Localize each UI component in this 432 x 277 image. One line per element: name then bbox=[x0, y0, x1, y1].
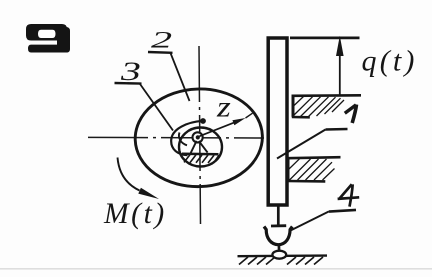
support triangle bbox=[191, 141, 208, 153]
leader 1 bbox=[277, 130, 326, 159]
problem number 9 bbox=[26, 24, 70, 53]
support base line bbox=[182, 153, 219, 156]
rod 1 bbox=[268, 38, 287, 205]
vertical centerline bbox=[199, 46, 201, 224]
inner circle 3 bbox=[179, 128, 222, 167]
z arrow bbox=[200, 122, 237, 136]
roller ball bbox=[272, 251, 286, 259]
cup follower 4 bbox=[264, 227, 292, 245]
upper guide block bbox=[292, 95, 362, 117]
ground line bbox=[238, 254, 328, 257]
support hatching bbox=[184, 155, 219, 163]
ground hatching bbox=[239, 257, 323, 265]
horizontal centerline bbox=[88, 136, 264, 139]
M(t) arc arrow bbox=[118, 158, 140, 191]
label 3 bbox=[120, 57, 141, 86]
svg-text:q(t): q(t) bbox=[362, 45, 418, 78]
spiral spring arc bbox=[171, 121, 202, 155]
leader 2 bbox=[171, 53, 190, 101]
stem crossbar bbox=[271, 224, 286, 227]
svg-text:z: z bbox=[216, 91, 231, 124]
underline 3 bbox=[115, 82, 142, 85]
leader 3 bbox=[140, 84, 173, 131]
disk 2 (large ellipse) bbox=[134, 87, 265, 189]
follower stem bbox=[277, 206, 280, 226]
top reference line bbox=[290, 37, 360, 40]
underline 2 bbox=[148, 51, 173, 54]
label z bbox=[216, 91, 231, 124]
svg-text:3: 3 bbox=[120, 57, 141, 86]
bottom page rule bbox=[0, 268, 432, 270]
lower guide block bbox=[287, 157, 340, 181]
svg-text:M(t): M(t) bbox=[103, 198, 167, 230]
label 4 bbox=[338, 184, 360, 206]
centerline dot inside rod bbox=[271, 137, 274, 140]
q(t) arrow bbox=[339, 50, 341, 95]
spiral inner hook bbox=[179, 133, 187, 146]
label 2 bbox=[151, 28, 172, 53]
label 1 bbox=[345, 105, 356, 113]
underline 1 bbox=[326, 128, 348, 131]
pin circle bbox=[193, 132, 203, 142]
leader 4 bbox=[291, 211, 330, 230]
spiral attachment dot bbox=[200, 118, 206, 124]
underline 4 bbox=[329, 210, 356, 212]
cup neck bbox=[278, 245, 281, 252]
pin center dot bbox=[196, 135, 200, 139]
svg-text:2: 2 bbox=[151, 28, 172, 53]
